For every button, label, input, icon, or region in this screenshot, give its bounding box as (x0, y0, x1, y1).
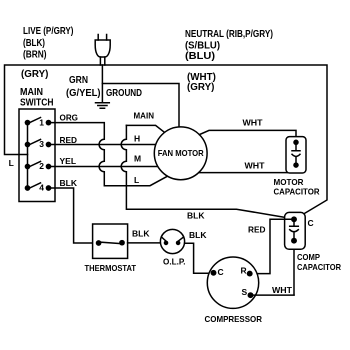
svg-text:L: L (134, 175, 139, 185)
svg-text:WHT: WHT (245, 161, 266, 171)
svg-text:BLK: BLK (132, 229, 150, 239)
svg-text:COMP: COMP (297, 252, 320, 262)
svg-text:3: 3 (39, 139, 44, 149)
svg-text:L: L (9, 158, 14, 168)
svg-text:(GRY): (GRY) (21, 69, 48, 80)
svg-text:(S/BLU): (S/BLU) (185, 41, 220, 52)
svg-text:BLK: BLK (189, 230, 207, 240)
svg-text:C: C (308, 218, 314, 228)
svg-text:M: M (134, 154, 141, 164)
svg-text:CAPACITOR: CAPACITOR (297, 262, 341, 272)
svg-text:R: R (241, 266, 247, 276)
svg-text:(BLK): (BLK) (23, 38, 45, 49)
svg-text:LIVE (P/GRY): LIVE (P/GRY) (23, 26, 74, 37)
svg-text:YEL: YEL (60, 156, 77, 166)
svg-text:S: S (242, 287, 248, 297)
svg-text:H: H (134, 134, 140, 144)
svg-text:SWITCH: SWITCH (20, 98, 54, 109)
svg-text:O.L.P.: O.L.P. (163, 257, 186, 267)
svg-text:RED: RED (248, 225, 266, 235)
svg-text:BLK: BLK (60, 178, 78, 188)
svg-text:COMPRESSOR: COMPRESSOR (205, 314, 263, 324)
svg-text:C: C (218, 267, 224, 277)
svg-text:4: 4 (39, 183, 44, 193)
svg-text:MAIN: MAIN (134, 111, 155, 121)
svg-text:FAN MOTOR: FAN MOTOR (158, 148, 204, 158)
svg-text:(GRY): (GRY) (187, 82, 214, 93)
svg-text:2: 2 (39, 161, 44, 171)
svg-text:GROUND: GROUND (106, 88, 142, 99)
svg-text:RED: RED (60, 135, 78, 145)
svg-text:(BLU): (BLU) (185, 51, 215, 62)
svg-text:CAPACITOR: CAPACITOR (274, 187, 320, 197)
svg-text:THERMOSTAT: THERMOSTAT (85, 263, 137, 273)
svg-text:WHT: WHT (243, 118, 264, 128)
svg-text:(BRN): (BRN) (23, 50, 47, 61)
svg-text:GRN: GRN (69, 75, 88, 86)
svg-text:BLK: BLK (187, 211, 205, 221)
svg-text:MAIN: MAIN (20, 87, 43, 98)
svg-text:ORG: ORG (60, 113, 79, 123)
svg-text:(G/YEL): (G/YEL) (66, 88, 101, 99)
svg-text:1: 1 (39, 117, 44, 127)
svg-text:MOTOR: MOTOR (274, 177, 304, 187)
svg-text:NEUTRAL (RIB,P/GRY): NEUTRAL (RIB,P/GRY) (185, 29, 273, 40)
svg-text:WHT: WHT (272, 285, 293, 295)
